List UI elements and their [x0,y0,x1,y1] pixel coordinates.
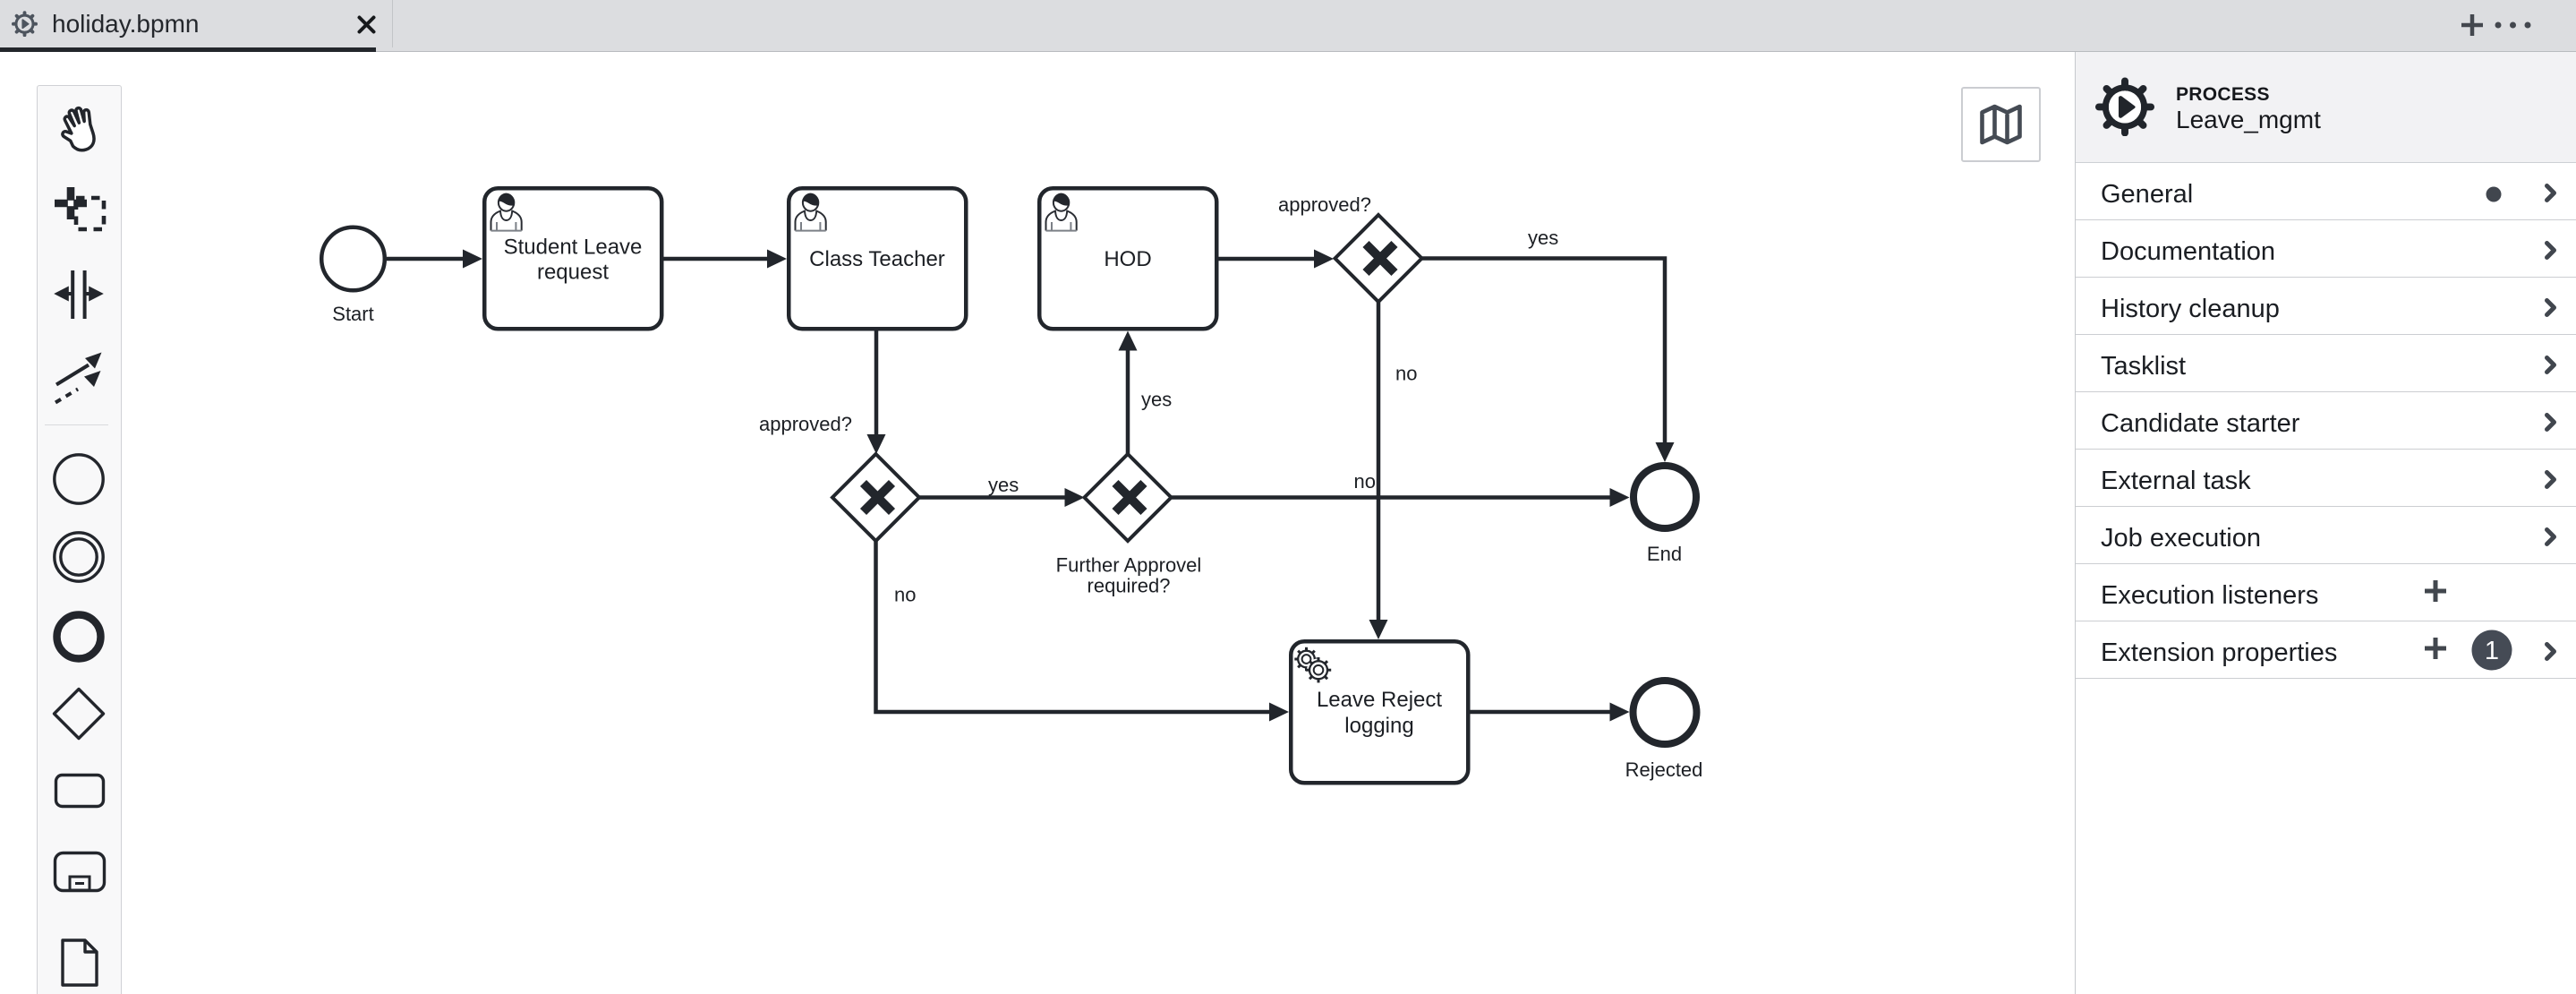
row Candidate starter [2076,392,2576,450]
svg-text:request: request [537,261,609,285]
svg-text:Start: Start [332,303,373,325]
space tool [50,267,107,324]
header title PROCESS [2176,84,2270,106]
svg-text:yes: yes [1141,389,1172,411]
panel header [2076,52,2576,163]
add execution listener (+) [2425,580,2446,602]
service task Leave Reject logging [1291,641,1468,783]
minimap toggle button [1961,87,2041,162]
sequence flow Start to Student Leave request [387,250,482,269]
palette container [37,85,122,994]
user task icon (HOD) [1046,193,1077,231]
count badge 1 [2471,630,2512,671]
active tab underline [0,47,376,52]
svg-text:logging: logging [1344,714,1413,738]
hand tool [55,105,104,153]
svg-text:no: no [1395,363,1417,385]
create end event tool [52,610,106,664]
tab separator [392,0,393,47]
sequence flow no: approved? down to Leave Reject logging [876,541,1290,722]
chevron [2545,184,2556,202]
row Extension properties [2076,621,2576,679]
svg-text:1: 1 [2485,637,2499,665]
sequence flow yes: approved? to Further Approvel required? [919,474,1085,507]
create start event tool [52,452,106,506]
general edited dot [2486,186,2502,202]
tab close button [357,15,376,34]
svg-text:yes: yes [988,474,1019,496]
exclusive gateway approved? (lower) [832,454,919,541]
svg-text:Further Approvel: Further Approvel [1056,554,1202,577]
header name Leave_mgmt [2176,106,2321,134]
svg-text:approved?: approved? [759,413,852,435]
svg-text:no: no [1354,470,1376,493]
tab bar [0,0,2576,52]
row History cleanup [2076,278,2576,335]
sequence flow yes: approved? (upper) to End [1422,227,1675,462]
row Tasklist [2076,335,2576,392]
svg-text:Student Leave: Student Leave [504,236,643,260]
sequence flow Class Teacher to approved? gateway [759,331,886,455]
user task icon (Student Leave request) [491,193,522,231]
sequence flow HOD to approved? gateway (upper) [1219,250,1335,269]
lasso tool [50,182,107,239]
end event End [1633,466,1696,565]
create data object tool [61,931,98,994]
create task tool [54,773,106,809]
exclusive gateway approved? (upper) [1278,193,1422,302]
overflow menu (...) [2494,21,2537,30]
row Job execution [2076,507,2576,564]
create subprocess tool [53,851,107,893]
global connect tool [50,347,107,405]
active tab process icon (gear with play) [12,11,38,37]
svg-text:HOD: HOD [1104,247,1151,271]
user task Student Leave request [484,188,661,329]
svg-text:Class Teacher: Class Teacher [809,247,945,271]
svg-text:yes: yes [1528,227,1558,249]
user task HOD [1039,188,1216,329]
row Execution listeners [2076,564,2576,621]
user task icon (Class Teacher) [796,193,826,231]
add extension property (+) [2425,638,2446,659]
tab title [52,0,199,47]
svg-text:End: End [1647,543,1682,565]
create gateway tool [52,687,106,741]
svg-text:approved?: approved? [1278,193,1371,216]
process icon [2095,77,2154,136]
row External task [2076,450,2576,507]
sequence flow Student Leave request to Class Teacher [664,250,788,269]
svg-text:Leave Reject: Leave Reject [1317,688,1442,712]
service task icon (Leave Reject logging) [1294,647,1331,683]
row General [2076,163,2576,220]
palette separator [45,424,108,425]
sequence flow Leave Reject logging to Rejected [1471,703,1630,722]
exclusive gateway Further Approvel required? [1056,454,1202,597]
sequence flow no: Further Approvel required? to End [1172,470,1630,507]
new tab (+) button [2461,14,2483,36]
sequence flow yes: Further Approvel required? up to HOD [1119,331,1173,455]
svg-text:required?: required? [1088,575,1171,597]
row Documentation [2076,220,2576,278]
minimap map icon [1980,104,2022,145]
user task Class Teacher [789,188,966,329]
svg-text:Rejected: Rejected [1625,758,1703,781]
create intermediate event tool [52,530,106,584]
svg-text:no: no [894,584,916,606]
sequence flow no: approved? (upper) down to Leave Reject logging [1369,302,1418,639]
start event Start [321,227,385,325]
end event Rejected [1625,681,1703,781]
